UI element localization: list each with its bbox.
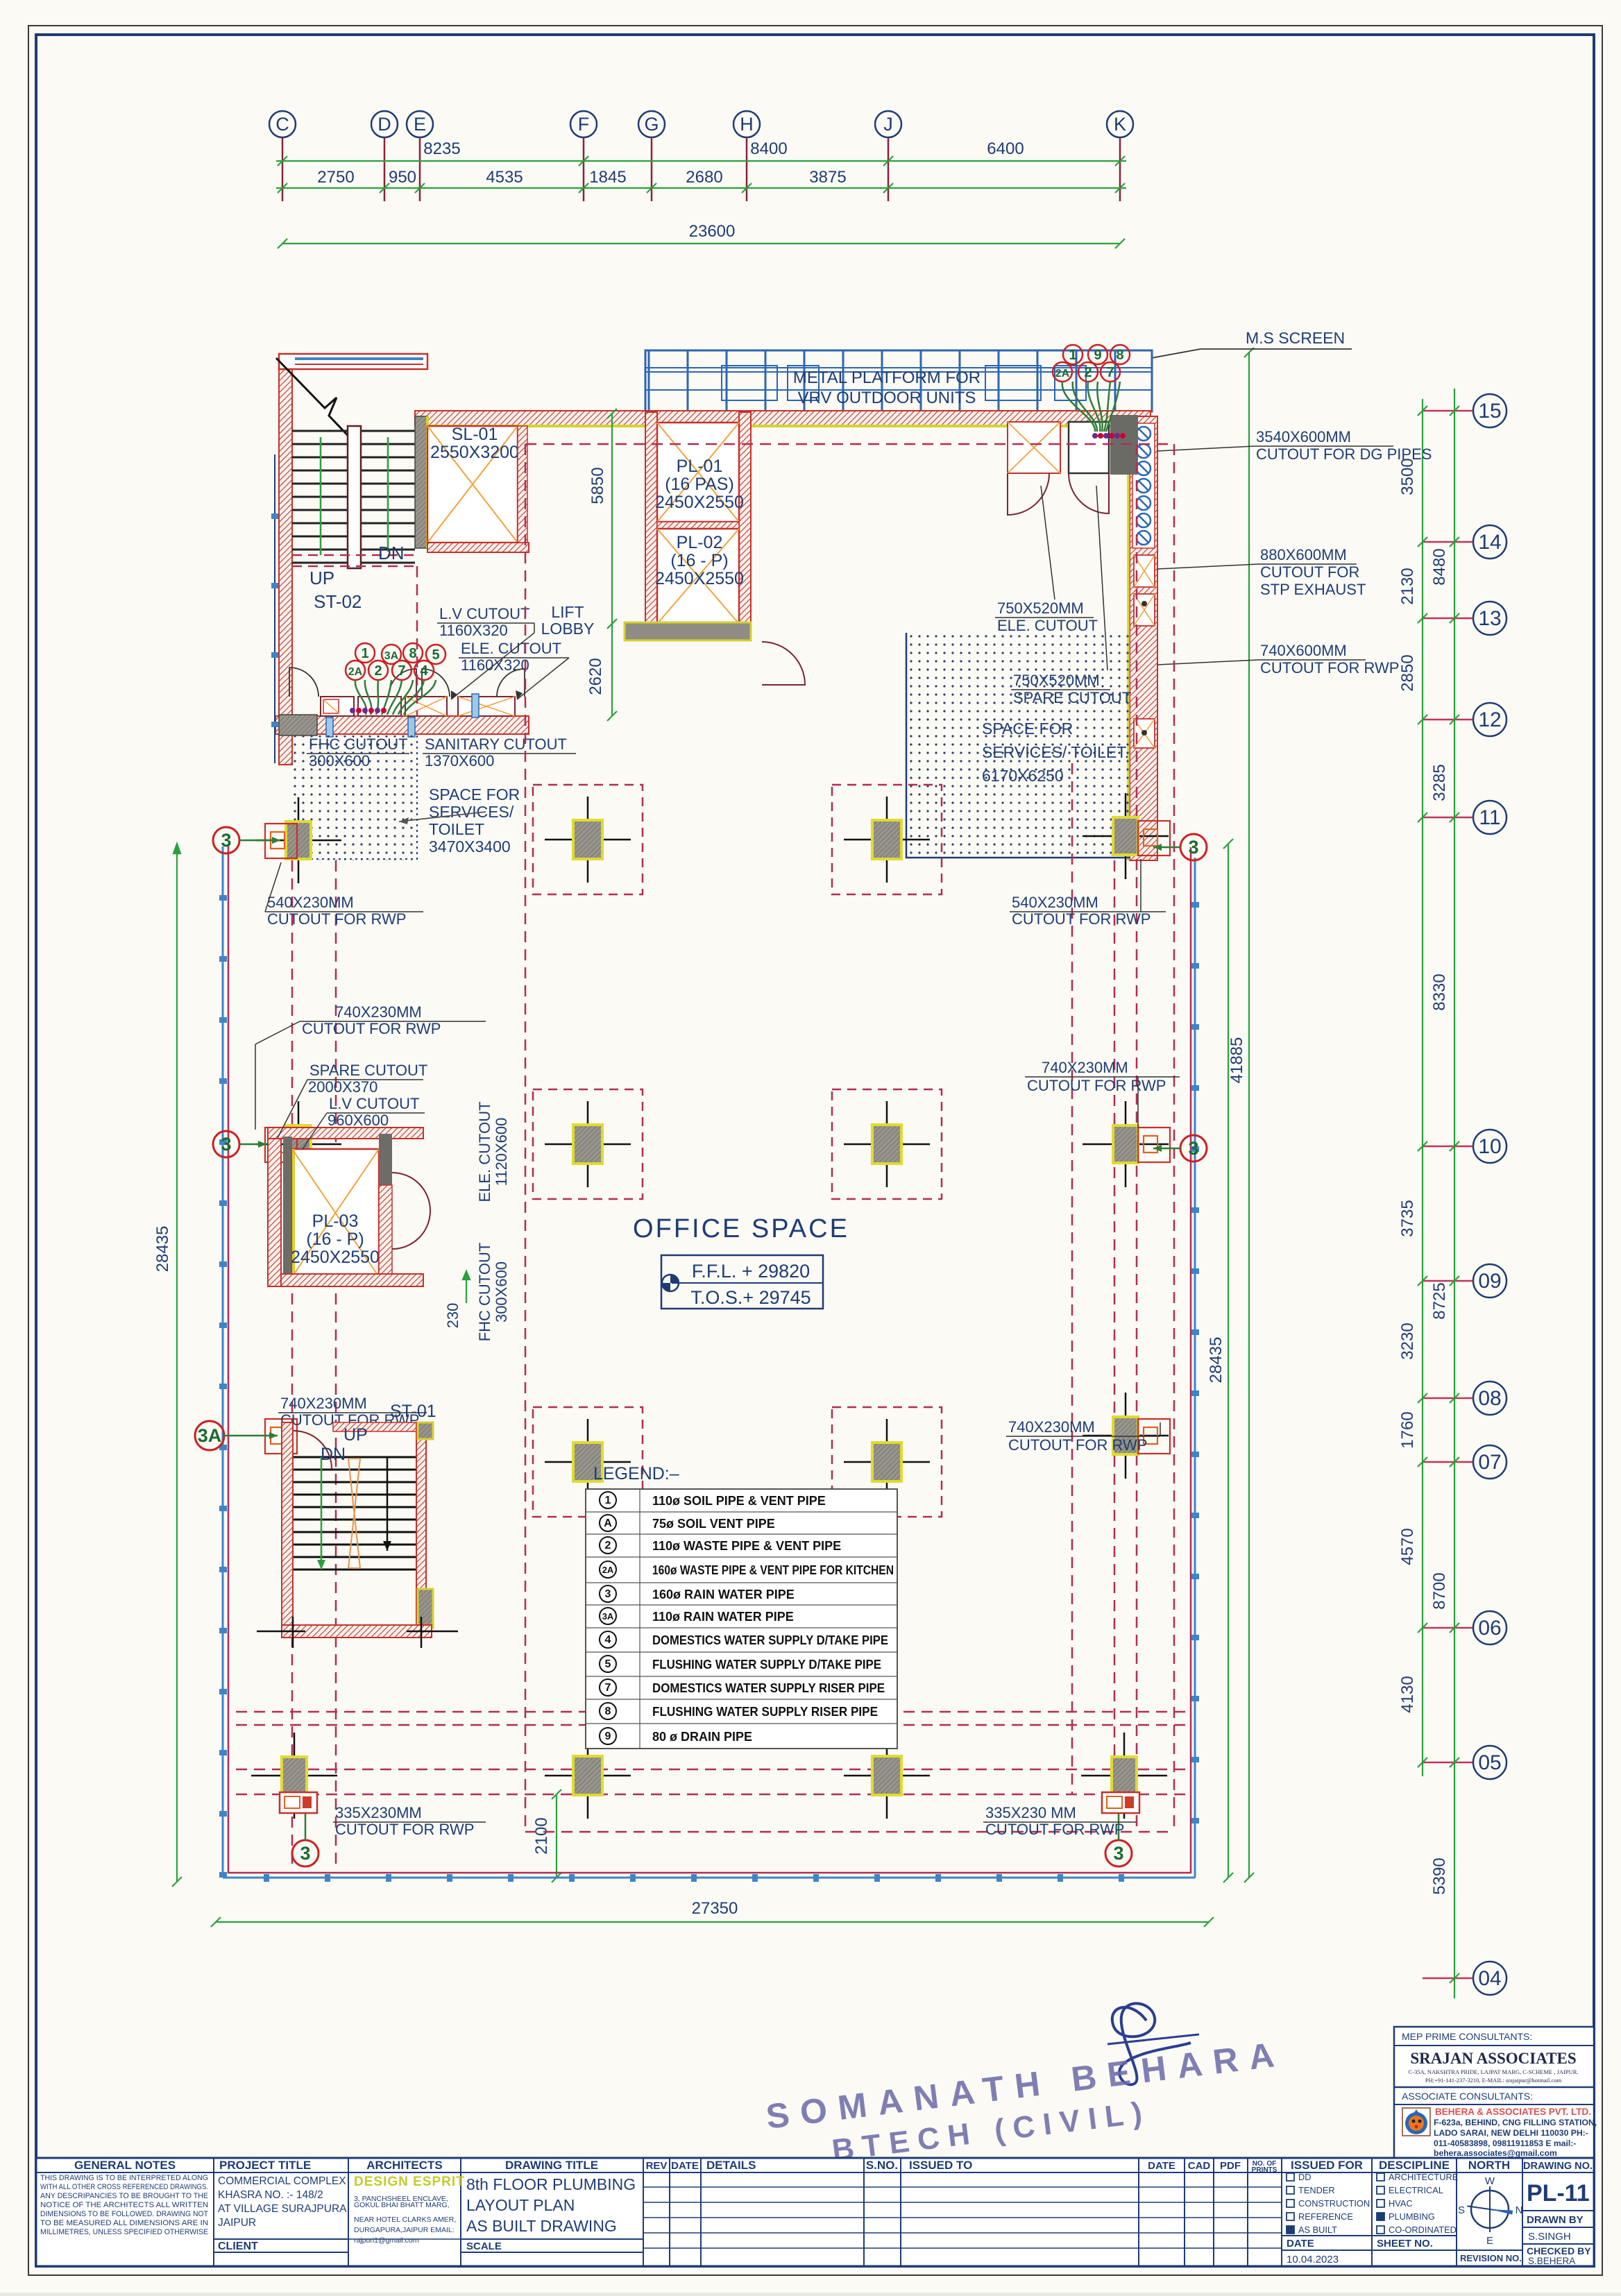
grid bubble J [875, 111, 901, 137]
grid bubble E [407, 111, 433, 137]
svg-text:DN: DN [378, 543, 405, 563]
grid bubble C [269, 111, 296, 137]
svg-text:950: 950 [389, 168, 416, 187]
svg-text:SPARE CUTOUT: SPARE CUTOUT [309, 1062, 427, 1079]
svg-text:28435: 28435 [1207, 1337, 1225, 1384]
svg-text:TOILET: TOILET [429, 820, 484, 838]
stair stringer [348, 426, 361, 568]
legend row 6 [600, 1608, 616, 1624]
svg-text:740X600MM: 740X600MM [1260, 642, 1347, 659]
consultants block [1394, 2027, 1594, 2158]
svg-text:PL-02: PL-02 [677, 533, 723, 552]
grid bubble K [1107, 111, 1133, 137]
svg-text:2680: 2680 [686, 168, 722, 187]
svg-text:PLUMBING: PLUMBING [1389, 2211, 1435, 2222]
marker 3A at (302,2069) [195, 1421, 224, 1450]
top-right corner block [1110, 415, 1138, 475]
svg-text:335X230MM: 335X230MM [335, 1804, 422, 1821]
grid stem E [419, 137, 421, 201]
svg-text:880X600MM: 880X600MM [1260, 546, 1347, 563]
svg-text:8330: 8330 [1430, 973, 1449, 1010]
svg-text:H: H [740, 114, 754, 135]
svg-text:BEHERA & ASSOCIATES PVT. LTD.: BEHERA & ASSOCIATES PVT. LTD. [1435, 2107, 1591, 2117]
column (430,1211) [255, 840, 341, 842]
svg-text:1: 1 [361, 646, 368, 661]
svg-text:DOMESTICS WATER SUPPLY RISER P: DOMESTICS WATER SUPPLY RISER PIPE [652, 1681, 885, 1695]
svg-text:L.V CUTOUT: L.V CUTOUT [439, 605, 529, 622]
svg-text:3: 3 [1188, 837, 1198, 858]
svg-text:AS BUILT DRAWING: AS BUILT DRAWING [466, 2217, 617, 2235]
svg-text:(16 - P): (16 - P) [670, 551, 728, 570]
left dim vertical 28435 [172, 844, 1214, 1927]
bottom dim 27350 [216, 1921, 1209, 1923]
grid stem C [282, 137, 284, 201]
svg-text:PH:+91-141-237-3210, E-MAIL: s: PH:+91-141-237-3210, E-MAIL: srajaipur@h… [1425, 2077, 1562, 2084]
svg-text:5: 5 [432, 647, 439, 663]
svg-text:J: J [883, 114, 893, 135]
services/toilet stipple right [906, 633, 1130, 858]
legend row 8 [600, 1656, 616, 1672]
svg-text:06: 06 [1478, 1617, 1501, 1640]
svg-text:2: 2 [374, 663, 382, 679]
column (1278,1210) [844, 839, 930, 841]
svg-text:CUTOUT FOR RWP: CUTOUT FOR RWP [335, 1821, 474, 1838]
svg-text:41885: 41885 [1228, 1037, 1246, 1084]
svg-text:3A: 3A [198, 1425, 222, 1446]
grid stem D [384, 137, 386, 201]
svg-text:SRAJAN ASSOCIATES: SRAJAN ASSOCIATES [1410, 2050, 1576, 2067]
svg-text:2450X2550: 2450X2550 [655, 493, 744, 512]
svg-text:WITH ALL OTHER CROSS REFERENCE: WITH ALL OTHER CROSS REFERENCED DRAWINGS… [40, 2183, 208, 2191]
svg-text:7: 7 [605, 1682, 611, 1694]
svg-text:F.F.L. + 29820: F.F.L. + 29820 [692, 1261, 810, 1282]
svg-text:230: 230 [444, 1303, 461, 1329]
svg-text:LOBBY: LOBBY [541, 620, 595, 638]
column (1622,1205) [1083, 835, 1169, 837]
svg-text:2000X370: 2000X370 [308, 1078, 377, 1096]
svg-text:(16 PAS): (16 PAS) [665, 475, 734, 494]
svg-text:G: G [644, 114, 659, 135]
lift landing slab [625, 622, 751, 640]
grid bubble D [371, 111, 398, 137]
svg-text:540X230MM: 540X230MM [1012, 894, 1098, 911]
svg-text:1845: 1845 [589, 168, 626, 187]
svg-text:2450X2550: 2450X2550 [291, 1248, 380, 1267]
svg-text:2130: 2130 [1398, 568, 1417, 604]
svg-text:GOKUL BHAI BHATT MARG,: GOKUL BHAI BHATT MARG, [354, 2201, 450, 2209]
lift PL-03 block [268, 1128, 423, 1139]
svg-text:LADO SARAI, NEW DELHI 110030 P: LADO SARAI, NEW DELHI 110030 PH:- [1434, 2128, 1588, 2138]
svg-text:07: 07 [1478, 1451, 1501, 1474]
svg-text:STP EXHAUST: STP EXHAUST [1260, 581, 1366, 598]
svg-text:AS BUILT: AS BUILT [1298, 2225, 1337, 2235]
svg-text:CHECKED BY: CHECKED BY [1527, 2245, 1591, 2256]
svg-text:15: 15 [1478, 400, 1501, 423]
svg-text:8480: 8480 [1430, 548, 1449, 585]
grid bubble 08 [1473, 1381, 1507, 1415]
right wing wall [1130, 416, 1157, 860]
bottom RWP cutout right [1102, 1792, 1139, 1813]
dim 5850/2620 [607, 409, 617, 721]
svg-text:110ø SOIL PIPE & VENT PIPE: 110ø SOIL PIPE & VENT PIPE [652, 1494, 826, 1508]
column (1278,1649) [844, 1143, 930, 1146]
svg-text:LAYOUT PLAN: LAYOUT PLAN [466, 2196, 575, 2214]
svg-text:1160X320: 1160X320 [461, 656, 529, 674]
svg-text:2750: 2750 [317, 168, 354, 187]
legend row 9 [600, 1679, 616, 1696]
curtain wall perimeter [223, 847, 1195, 1878]
svg-text:3230: 3230 [1398, 1323, 1417, 1359]
svg-text:3285: 3285 [1430, 764, 1449, 801]
legend row 7 [600, 1631, 616, 1648]
grid bubble 12 [1473, 703, 1507, 736]
svg-text:3540X600MM: 3540X600MM [1256, 428, 1351, 445]
logo [1402, 2108, 1430, 2136]
grid stem K [1119, 137, 1121, 201]
svg-text:04: 04 [1478, 1967, 1501, 1990]
svg-text:CUTOUT FOR RWP: CUTOUT FOR RWP [302, 1020, 441, 1037]
column (1620,2559) [1081, 1775, 1167, 1777]
PL-03 doors [392, 1173, 430, 1211]
svg-text:05: 05 [1478, 1751, 1501, 1774]
svg-text:4535: 4535 [486, 168, 523, 187]
svg-text:3A: 3A [384, 650, 399, 662]
dim chain outer [1454, 389, 1455, 1998]
column (847,2559) [545, 1775, 631, 1777]
grid stem H [746, 137, 748, 201]
svg-text:4: 4 [605, 1634, 611, 1646]
svg-text:DESCIPLINE: DESCIPLINE [1379, 2159, 1450, 2172]
sanitary fixtures [321, 697, 515, 716]
svg-text:ARCHITECTURE: ARCHITECTURE [1389, 2172, 1458, 2182]
svg-text:K: K [1114, 114, 1126, 135]
pipe risers in wall [1132, 423, 1155, 548]
svg-text:JAIPUR: JAIPUR [218, 2217, 256, 2229]
svg-text:8700: 8700 [1430, 1572, 1449, 1609]
svg-text:D: D [377, 114, 391, 135]
marker 3 at (326,1649) [213, 1131, 239, 1157]
svg-text:LEGEND:–: LEGEND:– [593, 1464, 679, 1483]
svg-text:A: A [604, 1517, 612, 1529]
svg-text:DATE: DATE [671, 2160, 699, 2172]
svg-text:DOMESTICS WATER SUPPLY D/TAKE: DOMESTICS WATER SUPPLY D/TAKE PIPE [652, 1633, 888, 1647]
svg-text:SERVICES/: SERVICES/ [429, 803, 514, 821]
svg-text:PDF: PDF [1220, 2160, 1241, 2172]
svg-text:540X230MM: 540X230MM [267, 894, 354, 911]
svg-text:CUTOUT FOR RWP: CUTOUT FOR RWP [985, 1821, 1124, 1838]
svg-text:NEAR HOTEL CLARKS AMER,: NEAR HOTEL CLARKS AMER, [354, 2216, 456, 2224]
svg-text:3470X3400: 3470X3400 [429, 837, 511, 856]
svg-text:ANY DESCRIPANCIES TO BE BROUG: ANY DESCRIPANCIES TO BE BROUGHT TO THE [40, 2192, 208, 2200]
ST-01 door [294, 1431, 332, 1469]
grid bubble 13 [1473, 602, 1507, 635]
dashed reference lines [236, 444, 1191, 1870]
svg-text:F-623a, BEHIND, CNG FILLING ST: F-623a, BEHIND, CNG FILLING STATION, [1434, 2118, 1597, 2127]
svg-text:8th FLOOR PLUMBING: 8th FLOOR PLUMBING [466, 2175, 636, 2193]
dim line 23600 [282, 243, 1120, 244]
svg-text:2: 2 [1084, 365, 1092, 380]
dim line sub-dims [276, 187, 1126, 189]
marker 3 bottom-left [292, 1840, 319, 1866]
marker 3 at (1720,1221) [1180, 834, 1207, 860]
svg-text:740X230MM: 740X230MM [1042, 1059, 1128, 1076]
svg-text:UP: UP [309, 568, 334, 588]
svg-text:FLUSHING WATER SUPPLY D/TAKE P: FLUSHING WATER SUPPLY D/TAKE PIPE [652, 1658, 881, 1672]
marker 3 at (1720,1655) [1180, 1135, 1207, 1162]
dashed landing lines [292, 555, 417, 566]
svg-text:PL-03: PL-03 [312, 1211, 359, 1231]
ele cutout boxes top-right [1008, 422, 1060, 473]
column (847,2107) [545, 1461, 631, 1463]
svg-text:2A: 2A [602, 1565, 614, 1575]
svg-text:UP: UP [343, 1425, 368, 1445]
curtain wall upper-left [274, 454, 275, 763]
svg-text:740X230MM: 740X230MM [280, 1395, 367, 1412]
pipe drop lines [355, 680, 436, 715]
marker 3 at (326,1211) [213, 827, 239, 853]
grid bubble G [638, 111, 665, 137]
svg-text:3500: 3500 [1398, 458, 1417, 495]
svg-text:COMMERCIAL COMPLEX: COMMERCIAL COMPLEX [218, 2175, 346, 2187]
svg-text:SCALE: SCALE [466, 2240, 502, 2252]
svg-text:CUTOUT FOR RWP: CUTOUT FOR RWP [1260, 659, 1399, 677]
svg-text:3875: 3875 [809, 168, 846, 187]
svg-text:1120X600: 1120X600 [493, 1118, 510, 1187]
svg-text:8: 8 [1116, 348, 1123, 363]
svg-text:PL-11: PL-11 [1527, 2180, 1590, 2206]
svg-text:W: W [1485, 2175, 1495, 2187]
column (1622,1649) [1083, 1143, 1169, 1146]
svg-text:S.NO.: S.NO. [866, 2159, 898, 2172]
grid bubble 09 [1473, 1264, 1507, 1298]
svg-text:HVAC: HVAC [1389, 2198, 1413, 2209]
svg-text:THIS DRAWING IS TO BE INTERPRE: THIS DRAWING IS TO BE INTERPRETED ALONG [40, 2174, 208, 2182]
svg-text:CUTOUT FOR RWP: CUTOUT FOR RWP [1008, 1436, 1147, 1454]
column (1278,2559) [844, 1775, 930, 1777]
svg-text:SANITARY CUTOUT: SANITARY CUTOUT [425, 735, 567, 753]
column (847,1649) [545, 1143, 631, 1146]
legend row 4 [600, 1561, 616, 1578]
legend row 1 [600, 1492, 616, 1508]
lift PL-01 [645, 412, 657, 640]
svg-text:ELE. CUTOUT: ELE. CUTOUT [997, 617, 1098, 634]
column (424,2559) [251, 1775, 337, 1777]
svg-text:5: 5 [605, 1658, 611, 1670]
svg-text:6400: 6400 [987, 139, 1024, 158]
services/toilet stipple left [288, 735, 417, 860]
svg-text:DURGAPURA,JAIPUR EMAIL:: DURGAPURA,JAIPUR EMAIL: [354, 2226, 455, 2234]
dim 230 [466, 1279, 467, 1303]
grid bubble 14 [1473, 525, 1507, 559]
RWP cutout boxes at wall columns [265, 821, 1170, 1454]
svg-text:CLIENT: CLIENT [218, 2240, 258, 2252]
svg-text:SERVICES/ TOILET.: SERVICES/ TOILET. [982, 743, 1129, 761]
svg-text:CONSTRUCTION: CONSTRUCTION [1298, 2198, 1370, 2209]
svg-text:S.SINGH: S.SINGH [1528, 2231, 1571, 2243]
svg-text:2A: 2A [348, 666, 363, 678]
svg-text:4130: 4130 [1398, 1676, 1417, 1712]
svg-text:4: 4 [420, 663, 428, 679]
svg-text:2A: 2A [1055, 368, 1070, 380]
svg-text:2550X3200: 2550X3200 [430, 443, 519, 462]
svg-text:1370X600: 1370X600 [425, 752, 494, 769]
svg-text:S.BEHERA: S.BEHERA [1528, 2256, 1575, 2266]
svg-text:C: C [275, 114, 289, 135]
svg-text:ST-02: ST-02 [314, 591, 362, 612]
svg-text:3: 3 [221, 1134, 231, 1155]
svg-text:960X600: 960X600 [328, 1112, 389, 1129]
svg-text:2: 2 [605, 1540, 611, 1551]
svg-text:DRAWN BY: DRAWN BY [1527, 2214, 1584, 2226]
svg-text:10: 10 [1478, 1135, 1501, 1158]
svg-text:1160X320: 1160X320 [439, 622, 508, 639]
svg-text:DRAWING NO.: DRAWING NO. [1523, 2161, 1593, 2172]
svg-text:DATE: DATE [1287, 2238, 1314, 2250]
svg-text:CUTOUT FOR: CUTOUT FOR [1260, 563, 1359, 581]
svg-text:ISSUED FOR: ISSUED FOR [1291, 2159, 1363, 2172]
compass [1471, 2191, 1509, 2228]
wall left of ST-02 [279, 354, 292, 765]
column (847,1210) [545, 839, 631, 841]
svg-text:28435: 28435 [153, 1226, 172, 1273]
svg-text:T.O.S.+ 29745: T.O.S.+ 29745 [690, 1287, 810, 1308]
svg-text:8: 8 [605, 1706, 611, 1717]
svg-text:VRV OUTDOOR UNITS: VRV OUTDOOR UNITS [798, 389, 976, 407]
svg-text:rajpuri1@gmail.com: rajpuri1@gmail.com [354, 2236, 419, 2245]
svg-text:740X230MM: 740X230MM [335, 1003, 422, 1021]
svg-text:SPACE FOR: SPACE FOR [982, 720, 1073, 738]
svg-text:MEP PRIME CONSULTANTS:: MEP PRIME CONSULTANTS: [1402, 2031, 1532, 2042]
svg-text:CUTOUT FOR RWP: CUTOUT FOR RWP [1027, 1077, 1166, 1094]
svg-text:DIMENSIONS TO BE FOLLOWED. DR: DIMENSIONS TO BE FOLLOWED. DRAWING NOT [40, 2210, 208, 2218]
svg-text:SPACE FOR: SPACE FOR [429, 785, 520, 803]
svg-text:OFFICE SPACE: OFFICE SPACE [633, 1214, 849, 1243]
svg-text:ASSOCIATE CONSULTANTS:: ASSOCIATE CONSULTANTS: [1402, 2091, 1533, 2102]
svg-text:TO BE MEASURED ALL DIMENSIONS: TO BE MEASURED ALL DIMENSIONS ARE IN [40, 2219, 208, 2227]
svg-text:REVISION NO.: REVISION NO. [1460, 2253, 1522, 2263]
svg-text:2850: 2850 [1398, 654, 1417, 691]
svg-text:PL-01: PL-01 [677, 457, 723, 476]
svg-text:METAL PLATFORM FOR: METAL PLATFORM FOR [793, 368, 981, 387]
break line [276, 358, 356, 444]
legend row 11 [600, 1728, 616, 1744]
svg-text:ELE. CUTOUT: ELE. CUTOUT [461, 640, 561, 657]
svg-text:PROJECT TITLE: PROJECT TITLE [219, 2159, 311, 2172]
svg-text:7: 7 [398, 663, 405, 679]
right row grid [1473, 394, 1507, 1995]
svg-text:ST-01: ST-01 [390, 1402, 436, 1421]
column (1278,2107) [844, 1461, 930, 1463]
dim line 8235/8400/6400 [276, 160, 1126, 162]
svg-text:NORTH: NORTH [1468, 2159, 1510, 2172]
legend row 10 [600, 1703, 616, 1719]
grid bubble F [570, 111, 597, 137]
svg-text:2100: 2100 [532, 1817, 551, 1854]
svg-text:S: S [1458, 2204, 1465, 2216]
svg-text:011-40583898, 09811911853 E ma: 011-40583898, 09811911853 E mail:- [1434, 2138, 1576, 2148]
svg-text:6170X6250: 6170X6250 [982, 767, 1064, 785]
svg-text:10.04.2023: 10.04.2023 [1287, 2254, 1339, 2265]
svg-text:DRAWING TITLE: DRAWING TITLE [505, 2159, 598, 2172]
svg-text:110ø WASTE PIPE & VENT PIPE: 110ø WASTE PIPE & VENT PIPE [652, 1539, 841, 1553]
svg-text:TENDER: TENDER [1298, 2185, 1335, 2195]
svg-text:ELECTRICAL: ELECTRICAL [1389, 2185, 1443, 2195]
svg-text:23600: 23600 [689, 222, 736, 241]
legend row 2 [600, 1515, 616, 1531]
stair treads ST-02 [292, 431, 415, 563]
svg-text:C-35A, NAKSHTRA PRIDE, LAJPAT: C-35A, NAKSHTRA PRIDE, LAJPAT MARG, C-SC… [1408, 2068, 1578, 2075]
svg-text:3: 3 [1113, 1843, 1123, 1864]
svg-text:REFERENCE: REFERENCE [1298, 2211, 1353, 2222]
svg-text:DETAILS: DETAILS [706, 2159, 756, 2172]
svg-text:CUTOUT FOR DG PIPES: CUTOUT FOR DG PIPES [1256, 445, 1432, 463]
long green dim verticals right [1223, 348, 1254, 1882]
svg-text:DD: DD [1298, 2172, 1311, 2182]
svg-text:09: 09 [1478, 1270, 1501, 1293]
grid bubble 15 [1473, 394, 1507, 427]
svg-text:1: 1 [1069, 348, 1076, 363]
svg-text:DN: DN [321, 1445, 346, 1464]
svg-text:740X230MM: 740X230MM [1008, 1418, 1095, 1436]
svg-text:1760: 1760 [1398, 1411, 1417, 1448]
svg-text:13: 13 [1478, 607, 1501, 630]
sanitary wall band [275, 716, 529, 734]
svg-text:160ø RAIN WATER PIPE: 160ø RAIN WATER PIPE [652, 1588, 795, 1601]
grid stem G [651, 137, 653, 201]
pipe lines in stair [320, 437, 322, 555]
svg-text:8: 8 [409, 646, 416, 661]
bottom RWP cutout left [280, 1792, 317, 1813]
svg-text:3A: 3A [602, 1611, 614, 1622]
grid stem J [888, 137, 890, 201]
svg-text:4570: 4570 [1398, 1528, 1417, 1565]
svg-text:ARCHITECTS: ARCHITECTS [366, 2159, 443, 2172]
door arc lobby [762, 642, 805, 685]
column (1622,2069) [1083, 1435, 1169, 1437]
legend row 5 [600, 1585, 616, 1602]
wall top landing band [279, 354, 427, 369]
svg-text:M.S SCREEN: M.S SCREEN [1246, 329, 1345, 347]
dim 2100 [556, 1794, 557, 1878]
svg-text:8725: 8725 [1430, 1282, 1449, 1319]
stamp SOMANATH BEHARA [764, 2034, 1287, 2168]
svg-text:GENERAL NOTES: GENERAL NOTES [74, 2159, 176, 2172]
svg-text:9: 9 [605, 1730, 611, 1742]
svg-text:E: E [1486, 2235, 1493, 2247]
grid bubble 06 [1473, 1611, 1507, 1644]
svg-text:3: 3 [300, 1843, 310, 1864]
svg-text:7: 7 [1106, 365, 1114, 380]
svg-text:SHEET NO.: SHEET NO. [1377, 2238, 1433, 2250]
signature [1112, 2003, 1191, 2084]
svg-text:160ø WASTE PIPE & VENT PIPE FO: 160ø WASTE PIPE & VENT PIPE FOR KITCHEN [652, 1563, 894, 1577]
svg-text:DESIGN ESPRIT: DESIGN ESPRIT [354, 2175, 465, 2189]
svg-text:L.V CUTOUT: L.V CUTOUT [329, 1095, 419, 1112]
top column grid [269, 111, 1133, 201]
svg-text:300X600: 300X600 [493, 1261, 510, 1323]
shaft SL-01 [415, 411, 1151, 426]
svg-text:2620: 2620 [586, 658, 605, 695]
FFL box [661, 1255, 823, 1309]
door arcs sanitary [289, 667, 319, 697]
metal platform for VRV outdoor units [645, 350, 1152, 411]
svg-text:3735: 3735 [1398, 1200, 1417, 1236]
svg-text:1: 1 [605, 1495, 611, 1506]
title block [36, 2158, 1594, 2266]
dim chain inner [1422, 399, 1423, 1776]
svg-text:08: 08 [1478, 1387, 1501, 1410]
grid bubble 05 [1473, 1746, 1507, 1779]
